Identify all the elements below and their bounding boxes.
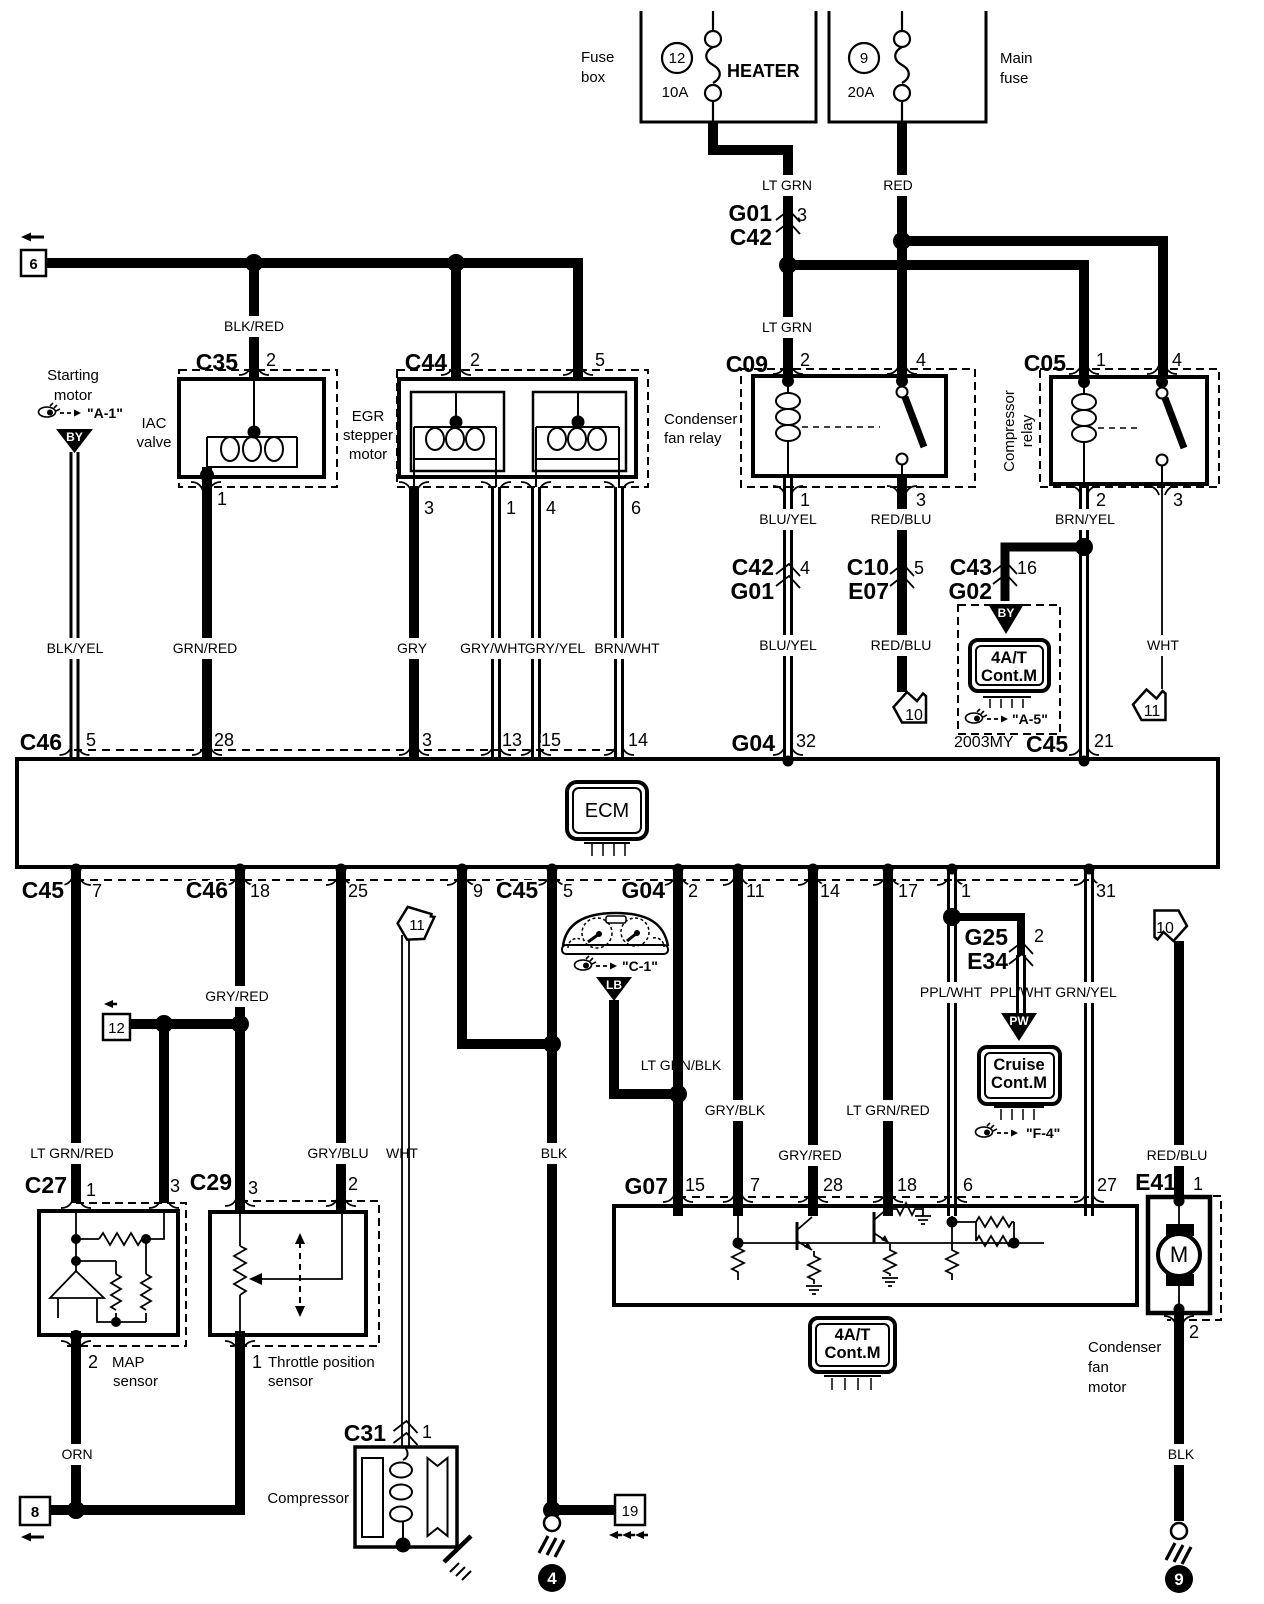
svg-text:C44: C44 xyxy=(405,349,447,375)
svg-text:11: 11 xyxy=(409,917,425,934)
svg-text:EGR: EGR xyxy=(352,408,385,425)
svg-text:E41: E41 xyxy=(1135,1169,1176,1195)
svg-text:7: 7 xyxy=(750,1175,760,1195)
svg-text:6: 6 xyxy=(29,256,37,273)
svg-text:Throttle position: Throttle position xyxy=(268,1354,375,1371)
svg-text:9: 9 xyxy=(473,881,483,901)
svg-text:1: 1 xyxy=(252,1352,262,1372)
svg-text:2003MY: 2003MY xyxy=(954,734,1014,751)
svg-text:10: 10 xyxy=(905,707,923,724)
svg-text:4: 4 xyxy=(916,350,926,370)
svg-text:fuse: fuse xyxy=(1000,70,1028,87)
svg-text:G02: G02 xyxy=(949,578,992,604)
svg-text:6: 6 xyxy=(963,1175,973,1195)
svg-text:27: 27 xyxy=(1097,1175,1117,1195)
svg-text:GRY/BLK: GRY/BLK xyxy=(705,1102,766,1118)
svg-text:5: 5 xyxy=(86,730,96,750)
svg-text:G25: G25 xyxy=(965,924,1009,950)
svg-text:3: 3 xyxy=(170,1176,180,1196)
svg-text:G07: G07 xyxy=(625,1173,668,1199)
svg-text:8: 8 xyxy=(31,1504,39,1521)
svg-text:C10: C10 xyxy=(847,554,889,580)
svg-text:9: 9 xyxy=(1174,1570,1183,1589)
svg-text:fan: fan xyxy=(1088,1359,1109,1376)
svg-text:GRN/YEL: GRN/YEL xyxy=(1055,984,1117,1000)
svg-text:C46: C46 xyxy=(186,877,228,903)
svg-text:Compressor: Compressor xyxy=(267,1490,349,1507)
svg-text:C27: C27 xyxy=(25,1172,67,1198)
svg-text:motor: motor xyxy=(1088,1379,1126,1396)
svg-text:BLK/RED: BLK/RED xyxy=(224,318,284,334)
svg-text:2: 2 xyxy=(800,350,810,370)
svg-text:BLU/YEL: BLU/YEL xyxy=(759,511,817,527)
svg-text:GRY/WHT: GRY/WHT xyxy=(460,640,526,656)
svg-text:IAC: IAC xyxy=(141,415,166,432)
svg-text:GRY/YEL: GRY/YEL xyxy=(525,640,586,656)
svg-text:3: 3 xyxy=(1173,490,1183,510)
svg-text:"F-4": "F-4" xyxy=(1026,1125,1060,1141)
svg-text:2: 2 xyxy=(1034,926,1044,946)
svg-text:6: 6 xyxy=(631,498,641,518)
svg-text:1: 1 xyxy=(961,881,971,901)
svg-text:HEATER: HEATER xyxy=(727,61,800,81)
svg-text:1: 1 xyxy=(86,1180,96,1200)
svg-text:stepper: stepper xyxy=(343,427,393,444)
svg-text:31: 31 xyxy=(1096,881,1116,901)
svg-text:BLK/YEL: BLK/YEL xyxy=(47,640,104,656)
svg-text:12: 12 xyxy=(108,1020,125,1037)
svg-text:GRY/RED: GRY/RED xyxy=(205,988,269,1004)
svg-text:4A/T: 4A/T xyxy=(835,1326,871,1344)
svg-text:2: 2 xyxy=(348,1174,358,1194)
svg-text:ECM: ECM xyxy=(585,800,629,822)
svg-text:LB: LB xyxy=(606,978,622,992)
svg-text:4A/T: 4A/T xyxy=(991,649,1027,667)
svg-text:"A-1": "A-1" xyxy=(87,405,123,421)
svg-text:1: 1 xyxy=(800,490,810,510)
svg-text:PPL/WHT: PPL/WHT xyxy=(920,984,983,1000)
svg-text:C31: C31 xyxy=(344,1420,386,1446)
svg-text:25: 25 xyxy=(348,881,368,901)
svg-text:MAP: MAP xyxy=(112,1354,145,1371)
svg-text:2: 2 xyxy=(88,1352,98,1372)
svg-text:motor: motor xyxy=(349,446,387,463)
svg-text:G01: G01 xyxy=(731,578,775,604)
svg-text:Cont.M: Cont.M xyxy=(825,1344,881,1362)
svg-text:9: 9 xyxy=(860,50,868,67)
svg-text:3: 3 xyxy=(916,490,926,510)
svg-text:LT GRN/RED: LT GRN/RED xyxy=(30,1145,114,1161)
svg-text:fan relay: fan relay xyxy=(664,430,722,447)
svg-text:Cont.M: Cont.M xyxy=(981,667,1037,685)
svg-text:2: 2 xyxy=(1189,1322,1199,1342)
svg-text:32: 32 xyxy=(796,731,816,751)
svg-text:RED/BLU: RED/BLU xyxy=(1147,1147,1208,1163)
svg-text:G04: G04 xyxy=(732,730,776,756)
svg-text:Compressor: Compressor xyxy=(1001,390,1018,472)
svg-text:19: 19 xyxy=(622,1503,639,1520)
svg-text:RED/BLU: RED/BLU xyxy=(871,637,932,653)
svg-text:RED: RED xyxy=(883,177,913,193)
svg-text:5: 5 xyxy=(595,350,605,370)
svg-text:1: 1 xyxy=(217,489,227,509)
svg-text:ORN: ORN xyxy=(61,1446,92,1462)
svg-text:sensor: sensor xyxy=(268,1373,313,1390)
svg-text:4: 4 xyxy=(1172,350,1182,370)
svg-text:C35: C35 xyxy=(196,349,238,375)
svg-text:4: 4 xyxy=(546,498,556,518)
svg-text:2: 2 xyxy=(470,350,480,370)
svg-text:C42: C42 xyxy=(732,554,774,580)
svg-text:C45: C45 xyxy=(496,877,538,903)
svg-text:BLU/YEL: BLU/YEL xyxy=(759,637,817,653)
svg-text:M: M xyxy=(1170,1242,1188,1267)
svg-text:18: 18 xyxy=(250,881,270,901)
svg-text:WHT: WHT xyxy=(1147,637,1179,653)
svg-text:Condenser: Condenser xyxy=(664,411,737,428)
svg-text:1: 1 xyxy=(1096,350,1106,370)
svg-text:GRY: GRY xyxy=(397,640,428,656)
svg-text:LT GRN: LT GRN xyxy=(762,319,812,335)
svg-text:LT GRN: LT GRN xyxy=(762,177,812,193)
svg-text:Cruise: Cruise xyxy=(993,1056,1044,1074)
svg-text:16: 16 xyxy=(1017,558,1037,578)
svg-text:sensor: sensor xyxy=(113,1373,158,1390)
svg-text:Condenser: Condenser xyxy=(1088,1339,1161,1356)
svg-text:LT GRN/RED: LT GRN/RED xyxy=(846,1102,930,1118)
svg-text:7: 7 xyxy=(92,881,102,901)
svg-text:10A: 10A xyxy=(662,84,689,101)
svg-text:1: 1 xyxy=(506,498,516,518)
svg-text:GRN/RED: GRN/RED xyxy=(173,640,238,656)
svg-text:3: 3 xyxy=(248,1178,258,1198)
svg-text:12: 12 xyxy=(669,50,686,67)
svg-text:Cont.M: Cont.M xyxy=(991,1074,1047,1092)
svg-text:2: 2 xyxy=(1096,490,1106,510)
svg-text:21: 21 xyxy=(1094,731,1114,751)
svg-text:3: 3 xyxy=(797,205,807,225)
svg-text:BRN/YEL: BRN/YEL xyxy=(1055,511,1115,527)
svg-text:BRN/WHT: BRN/WHT xyxy=(594,640,660,656)
svg-text:Starting: Starting xyxy=(47,367,99,384)
svg-text:2: 2 xyxy=(688,881,698,901)
svg-text:relay: relay xyxy=(1019,414,1036,447)
svg-text:E07: E07 xyxy=(848,578,889,604)
svg-text:28: 28 xyxy=(823,1175,843,1195)
svg-text:11: 11 xyxy=(746,881,765,901)
svg-text:C46: C46 xyxy=(20,729,62,755)
svg-text:13: 13 xyxy=(502,730,522,750)
svg-text:GRY/RED: GRY/RED xyxy=(778,1147,842,1163)
svg-text:5: 5 xyxy=(914,558,924,578)
svg-text:C45: C45 xyxy=(1026,731,1068,757)
svg-text:14: 14 xyxy=(820,881,840,901)
svg-text:PPL/WHT: PPL/WHT xyxy=(990,984,1053,1000)
svg-text:5: 5 xyxy=(563,881,573,901)
svg-text:15: 15 xyxy=(541,730,561,750)
svg-text:G04: G04 xyxy=(622,877,666,903)
svg-text:17: 17 xyxy=(898,881,918,901)
svg-text:motor: motor xyxy=(54,387,92,404)
svg-text:3: 3 xyxy=(422,730,432,750)
svg-text:C43: C43 xyxy=(950,554,992,580)
svg-text:BLK: BLK xyxy=(541,1145,568,1161)
svg-text:PW: PW xyxy=(1009,1014,1029,1028)
svg-text:"A-5": "A-5" xyxy=(1012,711,1048,727)
svg-text:C29: C29 xyxy=(190,1169,232,1195)
svg-text:4: 4 xyxy=(547,1569,557,1588)
svg-text:28: 28 xyxy=(214,730,234,750)
svg-text:1: 1 xyxy=(422,1422,432,1442)
svg-text:15: 15 xyxy=(685,1175,705,1195)
svg-text:E34: E34 xyxy=(967,948,1008,974)
svg-text:4: 4 xyxy=(800,558,810,578)
svg-text:valve: valve xyxy=(136,434,171,451)
svg-text:BY: BY xyxy=(998,606,1015,620)
svg-text:2: 2 xyxy=(266,350,276,370)
svg-text:C45: C45 xyxy=(22,877,64,903)
svg-text:box: box xyxy=(581,69,606,86)
svg-text:3: 3 xyxy=(424,498,434,518)
svg-text:Main: Main xyxy=(1000,50,1033,67)
svg-text:1: 1 xyxy=(1193,1174,1203,1194)
svg-text:11: 11 xyxy=(1144,703,1161,720)
svg-text:Fuse: Fuse xyxy=(581,49,614,66)
svg-text:BLK: BLK xyxy=(1168,1446,1195,1462)
svg-text:"C-1": "C-1" xyxy=(622,958,658,974)
svg-text:RED/BLU: RED/BLU xyxy=(871,511,932,527)
svg-text:14: 14 xyxy=(628,730,648,750)
svg-text:BY: BY xyxy=(66,430,83,444)
svg-text:C05: C05 xyxy=(1024,350,1066,376)
svg-text:G01: G01 xyxy=(729,200,773,226)
svg-text:18: 18 xyxy=(897,1175,917,1195)
svg-text:GRY/BLU: GRY/BLU xyxy=(307,1145,368,1161)
svg-text:20A: 20A xyxy=(848,84,875,101)
svg-text:10: 10 xyxy=(1156,920,1174,937)
svg-text:C09: C09 xyxy=(726,351,768,377)
svg-text:C42: C42 xyxy=(730,224,772,250)
